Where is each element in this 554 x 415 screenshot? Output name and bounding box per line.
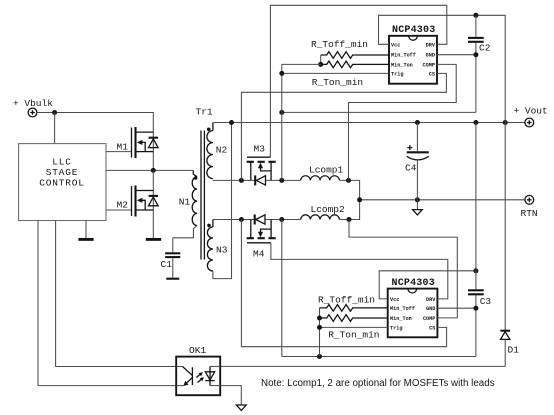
wire half-bridge midpoint <box>106 169 193 171</box>
junction rail/Vcc-D1 <box>503 120 508 125</box>
junction rail/C3 <box>473 120 478 125</box>
junction R2 network <box>317 316 322 321</box>
winding N3 (secondary lower) <box>207 220 228 272</box>
wire U2 Vcc to C3/+Vout <box>379 271 476 299</box>
svg-text:C1: C1 <box>161 259 173 270</box>
svg-text:Lcomp2: Lcomp2 <box>311 204 346 215</box>
wire U1 GND to M3 drain node <box>282 111 476 113</box>
junction midpoint <box>151 168 156 173</box>
ground below LLC box <box>78 221 93 240</box>
svg-text:CONTROL: CONTROL <box>39 178 85 189</box>
wire Vbulk rail to M1 drain <box>37 113 154 171</box>
svg-text:M4: M4 <box>253 249 265 260</box>
wire Vbulk to LLC box <box>54 113 56 144</box>
wire N3 top / M4 row <box>213 219 255 221</box>
node +Vbulk terminal <box>13 98 53 117</box>
node RTN terminal <box>521 195 538 219</box>
wire D1 anode to OK1 <box>220 365 505 367</box>
junction Vcc/C2 <box>473 13 478 18</box>
svg-text:+ Vout: + Vout <box>514 106 548 117</box>
svg-text:COMP: COMP <box>423 316 435 322</box>
svg-text:R_Ton_min: R_Ton_min <box>328 329 379 340</box>
node +Vout terminal <box>514 106 548 127</box>
svg-text:D1: D1 <box>508 344 520 355</box>
wire OK1 emitter to ground <box>220 386 241 405</box>
junction M4 drain node <box>279 217 284 222</box>
wire M2 drain-source path <box>152 170 154 238</box>
svg-text:NCP4303: NCP4303 <box>392 25 435 36</box>
wire +Vout rail <box>213 122 525 124</box>
junction Lcomp1/COMP <box>346 178 351 183</box>
junction M4 source node <box>239 217 244 222</box>
wire U1 CS to M3 source node <box>241 73 446 180</box>
IC U2 NCP4303 (lower) <box>388 278 438 337</box>
junction Trig2 network on GND row <box>317 354 322 359</box>
ground at OK1 <box>236 405 246 410</box>
resistor R_Ton_min (U1) <box>312 61 389 88</box>
body diode of M3 <box>255 175 265 185</box>
capacitor C3 <box>468 123 491 357</box>
svg-text:CS: CS <box>429 71 435 77</box>
body diode of M2 <box>149 196 159 206</box>
transistor M4 (SR MOSFET lower) <box>247 220 276 260</box>
svg-text:N3: N3 <box>216 245 228 256</box>
resistor R_Toff_min (U1) <box>311 39 389 64</box>
wire LLC to OK1 bottom pin <box>38 221 176 386</box>
svg-text:Min_Toff: Min_Toff <box>390 306 415 312</box>
svg-text:RTN: RTN <box>521 208 538 219</box>
inductor Lcomp1 <box>301 164 344 180</box>
junction rail/N3 return <box>229 120 234 125</box>
capacitor C4 (output, polarized) <box>405 123 429 200</box>
svg-text:C2: C2 <box>479 42 491 53</box>
svg-text:+ Vbulk: + Vbulk <box>13 98 53 109</box>
body diode of M4 <box>255 215 265 225</box>
junction GND2/C3 <box>473 306 478 311</box>
junction RTN/C4/ground <box>415 197 420 202</box>
wire U1 GND pin <box>437 54 476 56</box>
junction Trig/drain vertical <box>279 71 284 76</box>
svg-text:Min_Ton: Min_Ton <box>390 316 412 322</box>
wire U1 Vcc to +Vout rail <box>379 15 506 122</box>
svg-text:Tr1: Tr1 <box>196 106 213 117</box>
junction M3 drain node <box>279 178 284 183</box>
wire N2 bottom / M3 row <box>213 179 255 181</box>
transistor M3 (SR MOSFET upper) <box>247 143 276 180</box>
svg-text:NCP4303: NCP4303 <box>392 278 435 289</box>
svg-text:Note: Lcomp1, 2 are optional f: Note: Lcomp1, 2 are optional for MOSFETs… <box>261 378 495 389</box>
svg-text:R_Toff_min: R_Toff_min <box>318 295 375 306</box>
svg-text:Vcc: Vcc <box>390 297 399 303</box>
svg-text:GND: GND <box>426 53 435 59</box>
wire R network to M3 drain vertical <box>282 64 321 180</box>
svg-text:M3: M3 <box>254 143 266 154</box>
capacitor C1 (resonant) <box>161 238 181 279</box>
svg-text:OK1: OK1 <box>189 345 206 356</box>
svg-text:N1: N1 <box>179 196 191 207</box>
junction RTN/Lcomp <box>357 197 362 202</box>
svg-text:Min_Ton: Min_Ton <box>391 62 413 68</box>
wire U2 DRV to M4 gate <box>271 243 448 299</box>
ground at RTN rail <box>413 200 423 215</box>
wire U2 Trig pin <box>320 326 388 328</box>
junction GND wire / drain vertical <box>279 110 284 115</box>
wire U2 GND to OK1 collector row <box>282 356 476 358</box>
svg-text:Lcomp1: Lcomp1 <box>309 164 344 175</box>
svg-text:N2: N2 <box>216 145 228 156</box>
wire Lcomp2 right to RTN rail <box>339 200 359 220</box>
ground below M2 <box>146 238 161 241</box>
resistor R_Ton_min (U2) <box>320 315 388 341</box>
svg-text:DRV: DRV <box>426 42 436 48</box>
optocoupler OK1 <box>176 345 220 395</box>
junction Lcomp2/COMP2 <box>347 217 352 222</box>
capacitor C2 <box>468 15 491 112</box>
wire U2 GND pin <box>437 307 476 309</box>
svg-text:C3: C3 <box>480 296 492 307</box>
wire RTN rail <box>360 199 525 201</box>
svg-text:Trig: Trig <box>390 326 402 332</box>
wire U1 COMP to Lcomp1 right <box>349 64 457 180</box>
wire M4 drain vertical <box>281 220 283 357</box>
svg-text:R_Ton_min: R_Ton_min <box>312 77 363 88</box>
junction rail/C4 <box>415 120 420 125</box>
svg-text:Min_Toff: Min_Toff <box>391 53 416 59</box>
svg-text:Trig: Trig <box>391 71 403 77</box>
junction M3 source node <box>239 178 244 183</box>
wire LLC to OK1 top pin <box>56 221 177 367</box>
transformer core <box>201 131 204 260</box>
svg-text:STAGE: STAGE <box>46 167 79 178</box>
wire U2 CS to M4 source node <box>241 220 446 347</box>
wire N3 bottom to +Vout rail <box>213 123 232 279</box>
body diode of M1 <box>149 138 159 148</box>
wire U2 COMP to Lcomp2 right <box>349 220 457 318</box>
svg-text:C4: C4 <box>405 163 417 174</box>
junction Trig2 <box>317 325 322 330</box>
svg-text:LLC: LLC <box>52 157 72 168</box>
svg-text:M2: M2 <box>117 200 129 211</box>
diode D1 <box>500 123 519 367</box>
junction Vbulk/LLC <box>52 110 57 115</box>
IC U1 NCP4303 (upper) <box>389 25 437 83</box>
wire Lcomp1 right to RTN rail <box>339 180 359 199</box>
LLC STAGE CONTROL block <box>19 144 106 221</box>
winding N1 (primary) <box>173 170 198 237</box>
svg-text:GND: GND <box>426 306 435 312</box>
transistor M1 (half-bridge high side MOSFET) <box>106 127 153 158</box>
svg-text:COMP: COMP <box>423 62 435 68</box>
svg-text:M1: M1 <box>117 141 129 152</box>
junction Vcc2/C3 <box>473 268 478 273</box>
junction GND/C2 <box>473 52 478 57</box>
svg-text:CS: CS <box>429 326 435 332</box>
wire U1 Trig pin <box>282 72 389 74</box>
inductor Lcomp2 <box>301 204 345 219</box>
transistor M2 (half-bridge low side MOSFET) <box>106 186 153 217</box>
svg-text:R_Toff_min: R_Toff_min <box>311 39 368 50</box>
resistor R_Toff_min (U2) <box>318 295 388 357</box>
svg-text:Vcc: Vcc <box>391 42 400 48</box>
winding N2 (secondary upper) <box>207 123 228 179</box>
junction R network <box>318 62 323 67</box>
wire U1 DRV to M3 gate <box>270 5 446 157</box>
svg-text:DRV: DRV <box>426 297 436 303</box>
